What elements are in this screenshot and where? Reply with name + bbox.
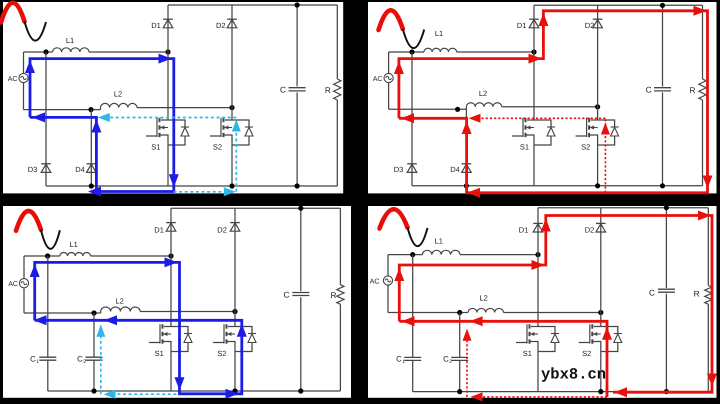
arrow bbox=[538, 13, 548, 26]
wire right edge bbox=[707, 208, 709, 286]
node bbox=[168, 253, 173, 258]
wire right edge bbox=[702, 5, 704, 79]
transistor S1 bbox=[161, 119, 168, 121]
node bbox=[409, 49, 414, 54]
node bbox=[229, 105, 234, 110]
svg-text:D1: D1 bbox=[517, 21, 527, 30]
diode D3 bbox=[407, 163, 417, 165]
svg-text:D1: D1 bbox=[151, 21, 161, 30]
source AC bbox=[19, 279, 28, 288]
transistor S2 bbox=[594, 326, 601, 328]
arrow bbox=[232, 120, 241, 132]
current path (S2 dotted) bbox=[604, 119, 606, 193]
svg-text:D2: D2 bbox=[585, 21, 595, 30]
current path (diode loop) bbox=[399, 11, 708, 193]
AC waveform symbol (positive half highlighted) bbox=[1, 3, 25, 23]
source AC bbox=[383, 276, 392, 285]
current path (C2 dashed) bbox=[108, 393, 238, 395]
wire bbox=[300, 208, 302, 291]
wire D4 branch bbox=[465, 109, 467, 186]
diode D1 bbox=[533, 222, 543, 224]
inductor L1 bbox=[60, 252, 91, 256]
arrow bbox=[159, 54, 172, 64]
svg-text:AC: AC bbox=[370, 279, 380, 286]
wire bbox=[24, 255, 60, 257]
svg-text:L1: L1 bbox=[435, 29, 443, 38]
current path (C2 dotted) bbox=[483, 396, 607, 398]
wire leg2 bbox=[234, 208, 236, 326]
wire bottom rail bbox=[413, 391, 709, 393]
svg-text:L1: L1 bbox=[70, 240, 78, 249]
wire bbox=[597, 142, 599, 186]
arrow bbox=[532, 260, 545, 270]
wire bbox=[23, 288, 25, 313]
node bbox=[664, 389, 669, 394]
arrow bbox=[104, 315, 117, 325]
arrow bbox=[401, 113, 414, 123]
wire bbox=[389, 108, 467, 110]
current path (diode loop) bbox=[399, 216, 712, 393]
svg-text:D1: D1 bbox=[154, 226, 164, 235]
arrow bbox=[602, 327, 612, 340]
node bbox=[598, 389, 603, 394]
wire C1 branch bbox=[412, 255, 414, 358]
panel B background bbox=[368, 2, 717, 193]
inductor L2 bbox=[466, 103, 501, 107]
svg-text:D2: D2 bbox=[217, 226, 227, 235]
svg-text:L2: L2 bbox=[114, 90, 122, 99]
arrow bbox=[91, 120, 101, 133]
wire bbox=[665, 208, 667, 288]
wire bbox=[23, 82, 25, 109]
wire bbox=[388, 312, 468, 314]
current path (C2 dotted) bbox=[466, 330, 468, 397]
wire right edge bbox=[339, 208, 341, 285]
panel D background bbox=[368, 206, 717, 398]
node bbox=[298, 388, 303, 393]
wire bbox=[388, 52, 390, 74]
wire bbox=[460, 254, 538, 256]
svg-text:D3: D3 bbox=[394, 165, 404, 174]
wire bbox=[23, 52, 25, 74]
inductor L2 bbox=[101, 307, 140, 312]
arrow bbox=[25, 60, 35, 73]
wire top rail bbox=[168, 4, 337, 6]
node bbox=[165, 49, 170, 54]
arrow bbox=[694, 6, 707, 16]
node bbox=[91, 388, 96, 393]
node bbox=[531, 49, 536, 54]
diode D2 bbox=[593, 18, 603, 20]
wire C2 branch bbox=[93, 313, 95, 357]
arrow bbox=[165, 257, 178, 267]
svg-text:L1: L1 bbox=[435, 237, 443, 246]
diode D1 bbox=[163, 18, 173, 20]
transistor S1 bbox=[164, 326, 171, 328]
diode D1 bbox=[529, 18, 539, 20]
resistor R bbox=[334, 79, 341, 100]
arrow bbox=[470, 316, 483, 326]
wire bbox=[231, 142, 233, 187]
transistor S1 bbox=[527, 119, 534, 121]
node bbox=[229, 183, 234, 188]
wire leg1 bbox=[167, 5, 169, 120]
svg-text:D1: D1 bbox=[519, 226, 529, 235]
diode D4 bbox=[87, 163, 97, 165]
arrow bbox=[32, 112, 45, 122]
diode D2 bbox=[230, 222, 240, 224]
current path (S2 dashed) bbox=[174, 191, 233, 193]
wire bbox=[24, 109, 101, 111]
node bbox=[535, 252, 540, 257]
wire leg2 bbox=[231, 5, 233, 120]
wire bbox=[504, 312, 601, 314]
svg-text:S2: S2 bbox=[581, 143, 590, 152]
node bbox=[464, 183, 469, 188]
svg-text:L2: L2 bbox=[116, 297, 124, 306]
svg-text:D4: D4 bbox=[450, 165, 460, 174]
wire leg1 bbox=[533, 5, 535, 120]
inductor L1 bbox=[423, 250, 461, 254]
wire bottom rail bbox=[412, 185, 703, 187]
svg-text:1: 1 bbox=[402, 359, 405, 365]
node bbox=[232, 388, 237, 393]
node bbox=[45, 253, 50, 258]
node bbox=[232, 309, 237, 314]
wire bbox=[296, 5, 298, 86]
current path (S2 dotted) bbox=[480, 117, 605, 119]
capacitor C bbox=[289, 87, 306, 89]
arrow bbox=[96, 325, 105, 337]
wire bbox=[388, 82, 390, 109]
svg-text:S1: S1 bbox=[520, 143, 529, 152]
capacitor C bbox=[658, 288, 675, 290]
arrow bbox=[402, 316, 415, 326]
current path (S2 dashed) bbox=[235, 119, 237, 192]
wire leg2 bbox=[597, 5, 599, 120]
arrow bbox=[471, 392, 483, 401]
diode D4 bbox=[462, 163, 472, 165]
current path (diode loop) bbox=[399, 321, 607, 397]
source AC bbox=[19, 73, 28, 82]
resistor R bbox=[337, 285, 344, 305]
arrow bbox=[469, 114, 481, 123]
source AC bbox=[384, 73, 393, 82]
svg-text:L2: L2 bbox=[480, 294, 488, 303]
wire bbox=[167, 142, 169, 187]
svg-text:L2: L2 bbox=[479, 89, 487, 98]
panel A background bbox=[3, 2, 343, 193]
wire leg2 bbox=[600, 208, 602, 327]
capacitor C1 bbox=[39, 356, 56, 358]
wire leg1 bbox=[170, 208, 172, 326]
wire bbox=[140, 311, 235, 313]
node bbox=[298, 206, 303, 211]
arrow bbox=[698, 211, 711, 221]
svg-text:S1: S1 bbox=[155, 349, 164, 358]
svg-text:1: 1 bbox=[36, 359, 39, 365]
resistor R bbox=[705, 286, 712, 305]
arrow bbox=[394, 268, 404, 281]
capacitor C2 bbox=[86, 356, 103, 358]
wire bbox=[600, 348, 602, 392]
arrow bbox=[169, 174, 179, 187]
wire bbox=[24, 312, 101, 314]
wire right edge bbox=[336, 5, 338, 79]
svg-text:AC: AC bbox=[8, 281, 18, 288]
wire bbox=[388, 254, 423, 256]
node bbox=[455, 107, 460, 112]
node bbox=[91, 310, 96, 315]
svg-text:C: C bbox=[646, 86, 652, 95]
wire bbox=[24, 51, 53, 53]
wire bottom rail bbox=[46, 185, 337, 187]
node bbox=[457, 389, 462, 394]
svg-text:2: 2 bbox=[449, 359, 452, 365]
svg-text:R: R bbox=[690, 86, 696, 95]
svg-text:S2: S2 bbox=[217, 349, 226, 358]
capacitor C1 bbox=[404, 356, 421, 358]
arrow bbox=[614, 387, 627, 397]
arrow bbox=[224, 187, 236, 196]
arrow bbox=[34, 315, 47, 325]
panel C background bbox=[3, 206, 351, 398]
wire bbox=[537, 348, 539, 392]
wire bbox=[389, 51, 424, 53]
inductor L1 bbox=[424, 48, 457, 52]
node bbox=[89, 183, 94, 188]
svg-text:S2: S2 bbox=[582, 349, 591, 358]
arrow bbox=[226, 389, 239, 399]
diode D2 bbox=[227, 18, 237, 20]
diode D2 bbox=[596, 222, 606, 224]
current path (C2 dashed) bbox=[100, 326, 102, 395]
svg-text:R: R bbox=[331, 291, 337, 300]
transistor S1 bbox=[531, 326, 538, 328]
svg-text:AC: AC bbox=[8, 76, 18, 83]
wire bbox=[533, 142, 535, 186]
svg-text:C: C bbox=[280, 86, 286, 95]
inductor L1 bbox=[53, 48, 90, 52]
arrow bbox=[707, 374, 717, 387]
node bbox=[660, 3, 665, 8]
wire bbox=[662, 5, 664, 86]
svg-text:D3: D3 bbox=[28, 165, 38, 174]
svg-text:S1: S1 bbox=[523, 349, 532, 358]
wire bbox=[457, 51, 534, 53]
svg-text:L1: L1 bbox=[66, 36, 74, 45]
capacitor C bbox=[654, 87, 671, 89]
svg-text:D2: D2 bbox=[585, 226, 595, 235]
svg-text:ybx8.cn: ybx8.cn bbox=[541, 366, 606, 384]
capacitor C2 bbox=[451, 356, 468, 358]
capacitor C bbox=[292, 292, 309, 294]
transistor S2 bbox=[225, 119, 232, 121]
arrow bbox=[529, 54, 542, 64]
node bbox=[595, 104, 600, 109]
svg-text:D4: D4 bbox=[75, 165, 85, 174]
wire bbox=[137, 107, 232, 109]
node bbox=[595, 183, 600, 188]
wire top rail bbox=[171, 207, 340, 209]
arrow bbox=[394, 61, 404, 74]
wire D3 branch bbox=[45, 52, 47, 186]
arrow bbox=[175, 377, 185, 390]
arrow bbox=[467, 188, 480, 198]
arrow bbox=[98, 113, 110, 122]
diode D1 bbox=[166, 222, 176, 224]
inductor L2 bbox=[101, 103, 138, 107]
svg-text:2: 2 bbox=[83, 359, 86, 365]
wire bbox=[502, 106, 598, 108]
node bbox=[43, 49, 48, 54]
current path (S2 dashed) bbox=[110, 117, 236, 119]
node bbox=[295, 2, 300, 7]
wire top rail bbox=[538, 207, 708, 209]
wire C1 branch bbox=[47, 256, 49, 357]
transistor S2 bbox=[228, 326, 235, 328]
diode D3 bbox=[41, 163, 51, 165]
wire bbox=[23, 256, 25, 279]
svg-text:S2: S2 bbox=[213, 143, 222, 152]
wire C2 branch bbox=[459, 313, 461, 358]
arrow bbox=[463, 329, 472, 341]
node bbox=[664, 205, 669, 210]
wire D4 branch bbox=[90, 110, 92, 186]
wire D3 branch bbox=[411, 52, 413, 186]
svg-text:R: R bbox=[325, 86, 331, 95]
svg-text:C: C bbox=[649, 289, 655, 298]
inductor L2 bbox=[468, 308, 504, 312]
resistor R bbox=[699, 79, 706, 100]
wire bbox=[91, 255, 172, 257]
svg-text:D2: D2 bbox=[216, 21, 226, 30]
wire bbox=[170, 348, 172, 391]
node bbox=[88, 107, 93, 112]
svg-text:C: C bbox=[284, 291, 290, 300]
node bbox=[410, 252, 415, 257]
node bbox=[457, 310, 462, 315]
node bbox=[295, 183, 300, 188]
arrow bbox=[601, 123, 610, 135]
AC waveform symbol (positive half highlighted) bbox=[380, 209, 408, 228]
arrow bbox=[104, 390, 116, 399]
arrow bbox=[703, 176, 713, 189]
svg-text:R: R bbox=[694, 290, 700, 299]
wire bbox=[234, 348, 236, 391]
arrow bbox=[462, 121, 472, 134]
node bbox=[660, 183, 665, 188]
transistor S2 bbox=[591, 119, 598, 121]
arrow bbox=[30, 264, 40, 277]
arrow bbox=[237, 324, 247, 337]
wire top rail bbox=[534, 4, 703, 6]
arrow bbox=[88, 187, 101, 197]
wire leg1 bbox=[537, 208, 539, 327]
AC waveform symbol (positive half highlighted) bbox=[379, 10, 403, 30]
node bbox=[598, 310, 603, 315]
current path (S1 loop) bbox=[30, 59, 174, 192]
current path (S1 loop) bbox=[35, 262, 242, 393]
wire bottom rail bbox=[48, 390, 341, 392]
arrow bbox=[541, 219, 551, 232]
wire bbox=[387, 285, 389, 313]
svg-text:AC: AC bbox=[373, 76, 383, 83]
svg-text:S1: S1 bbox=[151, 143, 160, 152]
wire bbox=[89, 51, 168, 53]
AC waveform symbol (positive half highlighted) bbox=[16, 211, 41, 231]
wire bbox=[387, 255, 389, 276]
